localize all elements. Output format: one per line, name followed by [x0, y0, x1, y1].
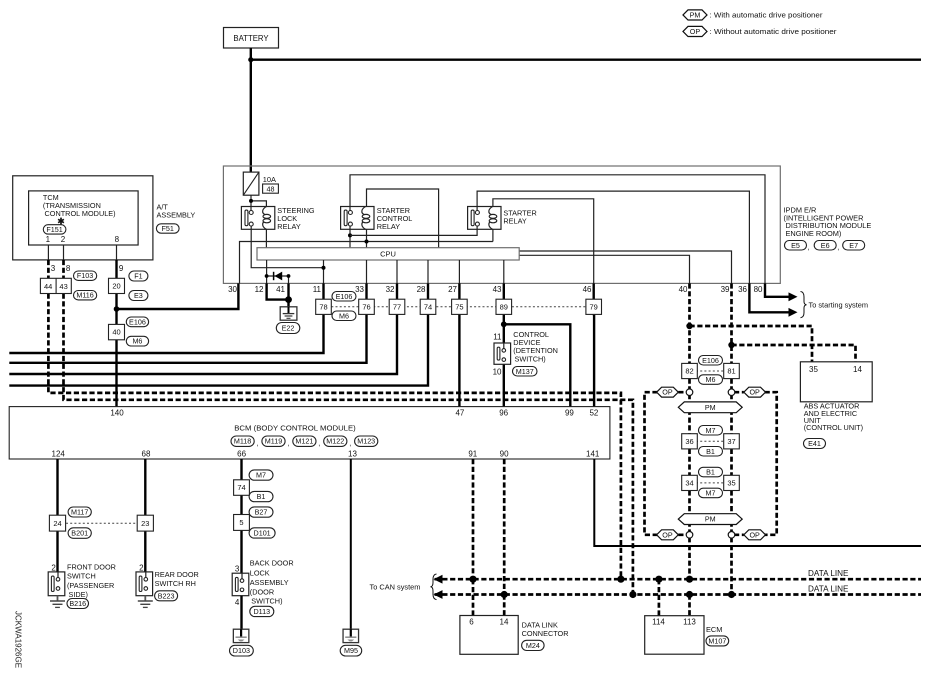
wire coil supply rail to pin30 — [240, 242, 493, 284]
svg-text:10: 10 — [493, 368, 502, 377]
svg-text:141: 141 — [586, 449, 600, 458]
wire BCM 68 to rear door switch — [144, 459, 146, 572]
wire pin41 stub — [288, 276, 290, 283]
wire pin46 to BCM 52 — [593, 283, 596, 406]
fuse 10A #48 — [243, 172, 259, 195]
wire detention switch to BCM 96 — [503, 362, 505, 407]
wire pin39 chain upper — [730, 283, 733, 363]
connector box 77 — [389, 299, 405, 314]
wire ECM 113 CAN — [688, 595, 691, 616]
svg-text:LOCK: LOCK — [250, 568, 270, 577]
wire pin33 chain — [9, 283, 366, 362]
wire CPU pin33 — [366, 260, 368, 283]
svg-text:M137: M137 — [516, 367, 534, 376]
svg-text:M24: M24 — [526, 641, 540, 650]
connector box 81 — [724, 363, 740, 378]
svg-text:PM: PM — [705, 403, 716, 412]
svg-text:ECM: ECM — [706, 625, 722, 634]
junction diode right — [287, 274, 291, 278]
wire starter control contact bottom to CPU — [349, 226, 351, 248]
battery box — [224, 28, 279, 49]
svg-text:E3: E3 — [134, 291, 143, 300]
svg-text:2: 2 — [139, 563, 144, 572]
svg-text:81: 81 — [727, 367, 735, 376]
svg-text:11: 11 — [313, 285, 322, 294]
OP hexagon right lower — [744, 530, 766, 540]
wire pin28 chain — [9, 283, 428, 385]
wire starter control contact top to pin80 — [350, 175, 765, 284]
svg-text:9: 9 — [119, 264, 124, 273]
svg-text:E106: E106 — [702, 356, 719, 365]
wire battery down to fuse — [250, 48, 252, 172]
junction circle right upper — [728, 389, 735, 396]
connector row dashed 24-23 — [66, 522, 137, 524]
junction TCM power node — [114, 306, 120, 312]
arrow CAN upper — [434, 575, 443, 584]
brace CAN system — [431, 574, 437, 600]
svg-text:F151: F151 — [46, 225, 62, 234]
svg-text:8: 8 — [115, 235, 120, 244]
wire pin30 to TCM junction — [117, 283, 239, 309]
ground rear door switch — [144, 596, 146, 601]
svg-text:CONTROL MODULE): CONTROL MODULE) — [45, 209, 116, 218]
connector box 78 — [316, 299, 332, 314]
diode flyback — [267, 275, 289, 277]
svg-text:89: 89 — [500, 302, 508, 311]
wire CPU pin11 — [323, 260, 325, 283]
connector M7 (66) — [249, 470, 273, 480]
svg-text:F103: F103 — [77, 271, 93, 280]
wire OP stub left upper — [678, 391, 687, 394]
svg-text:SWITCH): SWITCH) — [251, 597, 282, 606]
svg-text:M118: M118 — [234, 437, 251, 446]
svg-text:34: 34 — [685, 479, 693, 488]
svg-text:E5: E5 — [791, 241, 800, 250]
svg-text:74: 74 — [237, 483, 245, 492]
svg-text:52: 52 — [589, 408, 598, 417]
svg-text:B1: B1 — [257, 492, 266, 501]
svg-text:B27: B27 — [255, 508, 268, 517]
connector F103 — [74, 271, 97, 280]
svg-text:40: 40 — [112, 328, 120, 337]
arrow starting lower — [789, 308, 798, 317]
svg-text:To starting system: To starting system — [809, 300, 869, 309]
connector box 23 — [137, 515, 153, 531]
svg-text:OP: OP — [749, 388, 760, 397]
connector box 79 — [586, 299, 602, 314]
svg-text:43: 43 — [59, 282, 67, 291]
svg-text:D101: D101 — [254, 528, 271, 537]
wire pin8 chain to BCM 140 — [115, 294, 117, 407]
wire ladder left mid2 — [688, 449, 691, 476]
junction starter control contact node — [348, 233, 352, 237]
wire pin41 to ground E22 — [287, 283, 289, 307]
ground D103 connector — [233, 629, 249, 642]
svg-text:CONNECTOR: CONNECTOR — [522, 629, 569, 638]
connector box 89 — [496, 299, 512, 314]
svg-text:37: 37 — [727, 437, 735, 446]
svg-text:OP: OP — [662, 388, 673, 397]
wire pin27 to BCM 47 — [458, 283, 460, 406]
svg-text:35: 35 — [727, 479, 735, 488]
connector F51 — [156, 224, 179, 233]
legend PM symbol : with automatic drive positioner — [683, 10, 707, 20]
connector M24 — [522, 640, 545, 650]
svg-text:OP: OP — [690, 27, 701, 36]
svg-text:90: 90 — [500, 449, 509, 458]
svg-text:78: 78 — [319, 302, 327, 311]
wire branch to steering coil — [251, 201, 266, 207]
legend OP symbol : without automatic drive positioner — [683, 26, 707, 36]
connector D113 — [250, 606, 274, 616]
svg-text:36: 36 — [738, 285, 747, 294]
PM hexagon lower — [678, 514, 742, 525]
svg-text:30: 30 — [228, 285, 237, 294]
wire OP bypass left — [645, 392, 658, 535]
connector E106 (40) — [126, 317, 148, 327]
svg-text:F51: F51 — [162, 224, 174, 233]
svg-text:80: 80 — [754, 285, 763, 294]
wire BCM 66 to back door lock — [240, 459, 242, 573]
junction rail dots lower — [501, 591, 508, 598]
back door switch — [232, 573, 249, 596]
connector M6 (40) — [126, 336, 148, 346]
svg-text:27: 27 — [448, 285, 457, 294]
wire CAN L chain from box44 — [48, 294, 621, 580]
wire branch to ABS 14 — [732, 345, 856, 362]
wire BCM 90 CAN — [503, 459, 506, 595]
svg-text:41: 41 — [276, 285, 285, 294]
connector M137 — [513, 367, 538, 377]
svg-text:114: 114 — [652, 618, 665, 627]
svg-text:35: 35 — [809, 365, 818, 374]
svg-text:68: 68 — [142, 449, 151, 458]
wire TCM pin2 CAN to box43 — [62, 260, 65, 278]
wire ladder left lower — [688, 490, 691, 579]
svg-text:BACK DOOR: BACK DOOR — [250, 559, 294, 568]
svg-text:B1: B1 — [706, 447, 715, 456]
svg-text:PM: PM — [690, 10, 701, 19]
ECM box — [645, 616, 704, 655]
A/T assembly outer box — [13, 176, 153, 260]
wire TCM pin8 to box20 — [115, 260, 117, 278]
svg-text:M6: M6 — [706, 375, 716, 384]
TCM inner box — [29, 191, 139, 245]
connector E7 — [843, 241, 865, 251]
svg-text:,: , — [287, 439, 289, 448]
connector E106 (row) — [332, 292, 356, 302]
svg-text:39: 39 — [721, 285, 730, 294]
svg-text:: Without automatic drive posi: : Without automatic drive positioner — [710, 27, 837, 36]
wire starter relay contact bottom link — [350, 226, 477, 235]
connector B27 (66) — [249, 507, 273, 517]
wire DATA LINE upper rail — [435, 578, 922, 581]
connector B1 (upper) — [699, 447, 723, 457]
IPDM E/R enclosure box — [223, 166, 780, 283]
wire CPU stub to pin39 — [519, 251, 731, 283]
svg-text:23: 23 — [141, 519, 149, 528]
wire BCM 141 to data line — [594, 459, 921, 546]
connector E6 — [814, 241, 836, 251]
arrow starting upper — [789, 292, 798, 301]
connector B216 — [67, 599, 89, 609]
connector box 24 — [49, 515, 65, 531]
connector F151 — [43, 225, 66, 234]
wire CPU pin43 — [503, 260, 505, 283]
svg-text:74: 74 — [424, 302, 432, 311]
connector row dashed 34-35 — [696, 482, 725, 484]
arrow CAN lower — [434, 590, 443, 599]
connector M6 (ladder) — [699, 375, 723, 385]
svg-text:2: 2 — [61, 235, 66, 244]
junction pin40 node — [686, 323, 692, 329]
OP hexagon right upper — [744, 387, 766, 397]
svg-text:66: 66 — [237, 449, 246, 458]
wire OP stub right lower — [734, 533, 744, 536]
svg-text:B201: B201 — [71, 529, 88, 538]
wire starter relay contact top to pin36 — [477, 191, 749, 283]
ABS actuator box — [800, 362, 872, 402]
svg-text:,: , — [349, 439, 351, 448]
connector M116 — [74, 291, 97, 300]
svg-text:3: 3 — [235, 564, 240, 573]
svg-text:99: 99 — [565, 408, 574, 417]
wire ladder right mid — [730, 379, 733, 434]
svg-text:124: 124 — [52, 449, 66, 458]
wire detention switch branch to BCM 99 — [504, 324, 571, 406]
BCM connector ovals M118 M119 M121 M122 M123 — [231, 436, 254, 446]
wire TCM pin2 inside — [63, 245, 65, 260]
wire pin32 chain — [9, 283, 397, 374]
svg-text:M7: M7 — [706, 426, 716, 435]
data link connector box — [460, 616, 518, 655]
wire TCM pin1 inside — [47, 245, 49, 260]
wire pin80 to starting system — [765, 283, 790, 296]
connector box 40 — [109, 324, 125, 339]
svg-text:M122: M122 — [326, 437, 344, 446]
connector D103 — [230, 645, 254, 656]
svg-text:M7: M7 — [256, 471, 266, 480]
connector M95 — [340, 645, 362, 656]
svg-text:75: 75 — [455, 302, 463, 311]
svg-text:D103: D103 — [233, 646, 250, 655]
wire OP bypass right — [765, 392, 777, 535]
svg-text:ENGINE ROOM): ENGINE ROOM) — [786, 229, 842, 238]
wire pin36 to starting system — [749, 283, 789, 312]
connector M107 — [706, 636, 729, 646]
connector box 34 — [682, 475, 698, 490]
wire starter control coil top to CPU top — [367, 189, 439, 248]
wire ladder right lower — [730, 490, 733, 594]
fuse number 48 box — [263, 184, 279, 193]
relay starter — [468, 207, 501, 230]
junction circle left lower — [686, 532, 693, 539]
junction circle left upper — [686, 389, 693, 396]
wire pin43 to detention switch — [503, 283, 505, 347]
wire BCM 91 CAN — [472, 459, 475, 579]
relay starter control — [341, 207, 374, 230]
wire DLC 14 CAN — [503, 595, 506, 616]
svg-text:47: 47 — [455, 408, 464, 417]
relay steering lock — [241, 207, 274, 230]
junction battery node — [248, 57, 253, 62]
wire CPU pin28 — [427, 260, 429, 283]
connector box 75 — [452, 299, 468, 314]
svg-text:: With automatic drive positio: : With automatic drive positioner — [710, 11, 823, 20]
svg-text:OP: OP — [662, 530, 673, 539]
wire starter control coil bottom to CPU — [366, 229, 368, 247]
svg-text:To CAN system: To CAN system — [370, 582, 421, 591]
connector M117 — [68, 507, 91, 517]
wire TCM pin8 inside — [116, 245, 118, 260]
svg-text:46: 46 — [583, 285, 592, 294]
wire steering relay coil bottom to CPU — [265, 229, 267, 247]
svg-text:48: 48 — [267, 185, 275, 194]
svg-text:SIDE): SIDE) — [69, 590, 88, 599]
svg-text:10A: 10A — [263, 175, 276, 184]
wire ladder left mid — [688, 379, 691, 434]
svg-text:OP: OP — [749, 530, 760, 539]
wire CPU pin27 — [458, 260, 460, 283]
svg-text:28: 28 — [417, 285, 426, 294]
svg-text:,: , — [257, 439, 259, 448]
connector box 20 — [109, 278, 125, 293]
wire battery feed to right edge — [251, 59, 921, 61]
svg-text:ASSEMBLY: ASSEMBLY — [157, 210, 196, 219]
svg-text:6: 6 — [469, 618, 474, 627]
junction diode left — [265, 274, 269, 278]
svg-text:140: 140 — [110, 408, 124, 417]
svg-text:BCM (BODY CONTROL MODULE): BCM (BODY CONTROL MODULE) — [234, 424, 356, 433]
svg-text:5: 5 — [239, 518, 243, 527]
wire branch to ABS 35 — [690, 326, 813, 362]
junction rail dots upper — [469, 576, 476, 583]
connector M7 (lower) — [699, 488, 723, 498]
svg-text:CPU: CPU — [380, 250, 396, 259]
svg-text:3: 3 — [51, 264, 56, 273]
connector boxes 44 43 — [40, 278, 71, 293]
svg-text:E7: E7 — [849, 241, 858, 250]
wire BCM 124 to door switch — [56, 459, 58, 572]
svg-text:E106: E106 — [336, 292, 353, 301]
svg-text:E41: E41 — [808, 439, 821, 448]
svg-text:M119: M119 — [265, 437, 282, 446]
svg-text:8: 8 — [66, 264, 71, 273]
junction pin39 node — [728, 342, 734, 348]
connector row dashed 82-81 — [696, 370, 725, 372]
svg-text:M95: M95 — [344, 646, 358, 655]
svg-text:43: 43 — [493, 285, 502, 294]
wire pin11 chain — [9, 283, 323, 353]
svg-text:14: 14 — [853, 365, 862, 374]
connector box 74 — [420, 299, 436, 314]
junction ground node — [285, 296, 292, 303]
svg-text:2: 2 — [51, 563, 56, 572]
connector M6 (row) — [332, 311, 356, 321]
connector row dashed line E106/M6 — [331, 306, 586, 308]
control device switch symbol — [494, 343, 511, 364]
wire starter relay coil top to pin46 — [493, 199, 594, 284]
svg-text:,: , — [318, 439, 320, 448]
svg-text:,: , — [808, 243, 810, 252]
svg-text:M7: M7 — [706, 488, 716, 497]
connector B1 (lower) — [699, 467, 723, 477]
svg-text:M107: M107 — [708, 636, 726, 645]
svg-text:PM: PM — [705, 515, 716, 524]
svg-text:RELAY: RELAY — [503, 217, 527, 226]
svg-text:M123: M123 — [357, 437, 375, 446]
svg-text:113: 113 — [683, 618, 696, 627]
wire CPU pin32 — [396, 260, 398, 283]
svg-text:(DOOR: (DOOR — [250, 588, 274, 597]
svg-text:77: 77 — [393, 302, 401, 311]
svg-text:F1: F1 — [134, 272, 142, 281]
svg-text:(PASSENGER: (PASSENGER — [67, 581, 114, 590]
junction below fuse — [249, 199, 253, 203]
svg-text:11: 11 — [493, 333, 502, 342]
connector box 36 — [682, 434, 698, 449]
svg-text:RELAY: RELAY — [377, 222, 401, 231]
svg-text:D113: D113 — [253, 607, 270, 616]
svg-text:M6: M6 — [132, 337, 142, 346]
wire OP stub right upper — [734, 391, 744, 394]
wire DLC 6 CAN — [472, 579, 475, 615]
svg-text:M117: M117 — [71, 508, 88, 517]
svg-text:76: 76 — [362, 302, 370, 311]
CPU box — [257, 248, 519, 260]
connector box 5 — [234, 515, 250, 531]
star mark — [58, 218, 64, 225]
junction circle right lower — [728, 532, 735, 539]
connector B1 (66) — [249, 491, 273, 501]
svg-text:ASSEMBLY: ASSEMBLY — [250, 578, 289, 587]
svg-text:SWITCH): SWITCH) — [515, 354, 546, 363]
svg-text:REAR DOOR: REAR DOOR — [155, 570, 199, 579]
connector E5 — [785, 241, 807, 251]
svg-text:DATA LINE: DATA LINE — [808, 585, 849, 594]
connector box 76 — [359, 299, 375, 314]
connector F1 — [129, 271, 148, 281]
svg-text:BATTERY: BATTERY — [233, 34, 269, 43]
brace starting system — [801, 292, 807, 318]
wire back door to D103 — [240, 596, 242, 630]
svg-text:4: 4 — [235, 598, 240, 607]
svg-text:RELAY: RELAY — [277, 222, 301, 231]
svg-text:20: 20 — [112, 282, 120, 291]
wire fuse to relay node — [250, 195, 252, 210]
connector M7 (upper) — [699, 426, 723, 436]
svg-text:91: 91 — [468, 449, 477, 458]
svg-text:FRONT DOOR: FRONT DOOR — [67, 562, 116, 571]
rear door switch — [136, 572, 153, 596]
svg-text:13: 13 — [348, 449, 357, 458]
svg-text:44: 44 — [44, 282, 52, 291]
svg-text:36: 36 — [685, 437, 693, 446]
connector row dashed 36-37 — [696, 440, 725, 442]
connector E22 — [276, 323, 300, 334]
wire CPU stub to pin40 — [519, 255, 689, 283]
svg-text:B1: B1 — [706, 468, 715, 477]
connector D101 — [249, 528, 275, 538]
connector E3 — [129, 291, 148, 301]
wire TCM pin1 CAN to box44 — [47, 260, 50, 278]
svg-text:1: 1 — [46, 235, 51, 244]
svg-text:M121: M121 — [295, 437, 313, 446]
svg-text:B216: B216 — [69, 599, 86, 608]
wire OP stub left lower — [678, 533, 687, 536]
connector E41 — [804, 439, 826, 449]
svg-text:32: 32 — [386, 285, 395, 294]
